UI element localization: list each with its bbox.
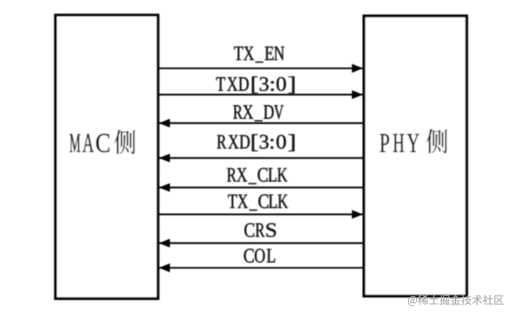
wire CRS bbox=[158, 242, 364, 244]
label MAC side bbox=[70, 134, 110, 153]
wire TXD[3:0] bbox=[158, 94, 364, 96]
arrowhead COL bbox=[159, 263, 170, 272]
arrowhead TX_EN bbox=[352, 64, 363, 73]
wire COL bbox=[158, 267, 364, 269]
arrowhead RX_DV bbox=[159, 119, 170, 128]
wire TX_EN bbox=[158, 67, 364, 69]
label RX_DV bbox=[233, 105, 283, 121]
label COL bbox=[244, 249, 275, 263]
label RX_CLK bbox=[227, 168, 287, 184]
label CRS bbox=[245, 223, 276, 237]
wire RXD[3:0] bbox=[158, 157, 364, 159]
MAC block bbox=[56, 15, 159, 299]
label RXD[3:0] bbox=[217, 134, 294, 151]
label TX_CLK bbox=[228, 194, 288, 210]
arrowhead CRS bbox=[159, 239, 170, 248]
label TXD[3:0] bbox=[216, 77, 294, 94]
arrowhead RXD[3:0] bbox=[159, 154, 170, 163]
wire RX_DV bbox=[158, 122, 364, 124]
label PHY side bbox=[380, 134, 419, 152]
watermark juejin community bbox=[408, 295, 504, 306]
wire RX_CLK bbox=[158, 187, 364, 189]
PHY block bbox=[364, 16, 467, 296]
label PHY side CJK ce bbox=[426, 129, 447, 154]
arrowhead TXD[3:0] bbox=[352, 90, 363, 99]
wire TX_CLK bbox=[158, 213, 364, 215]
label MAC side CJK ce bbox=[114, 130, 135, 155]
arrowhead TX_CLK bbox=[352, 210, 363, 219]
label TX_EN bbox=[234, 47, 284, 63]
arrowhead RX_CLK bbox=[159, 183, 170, 192]
